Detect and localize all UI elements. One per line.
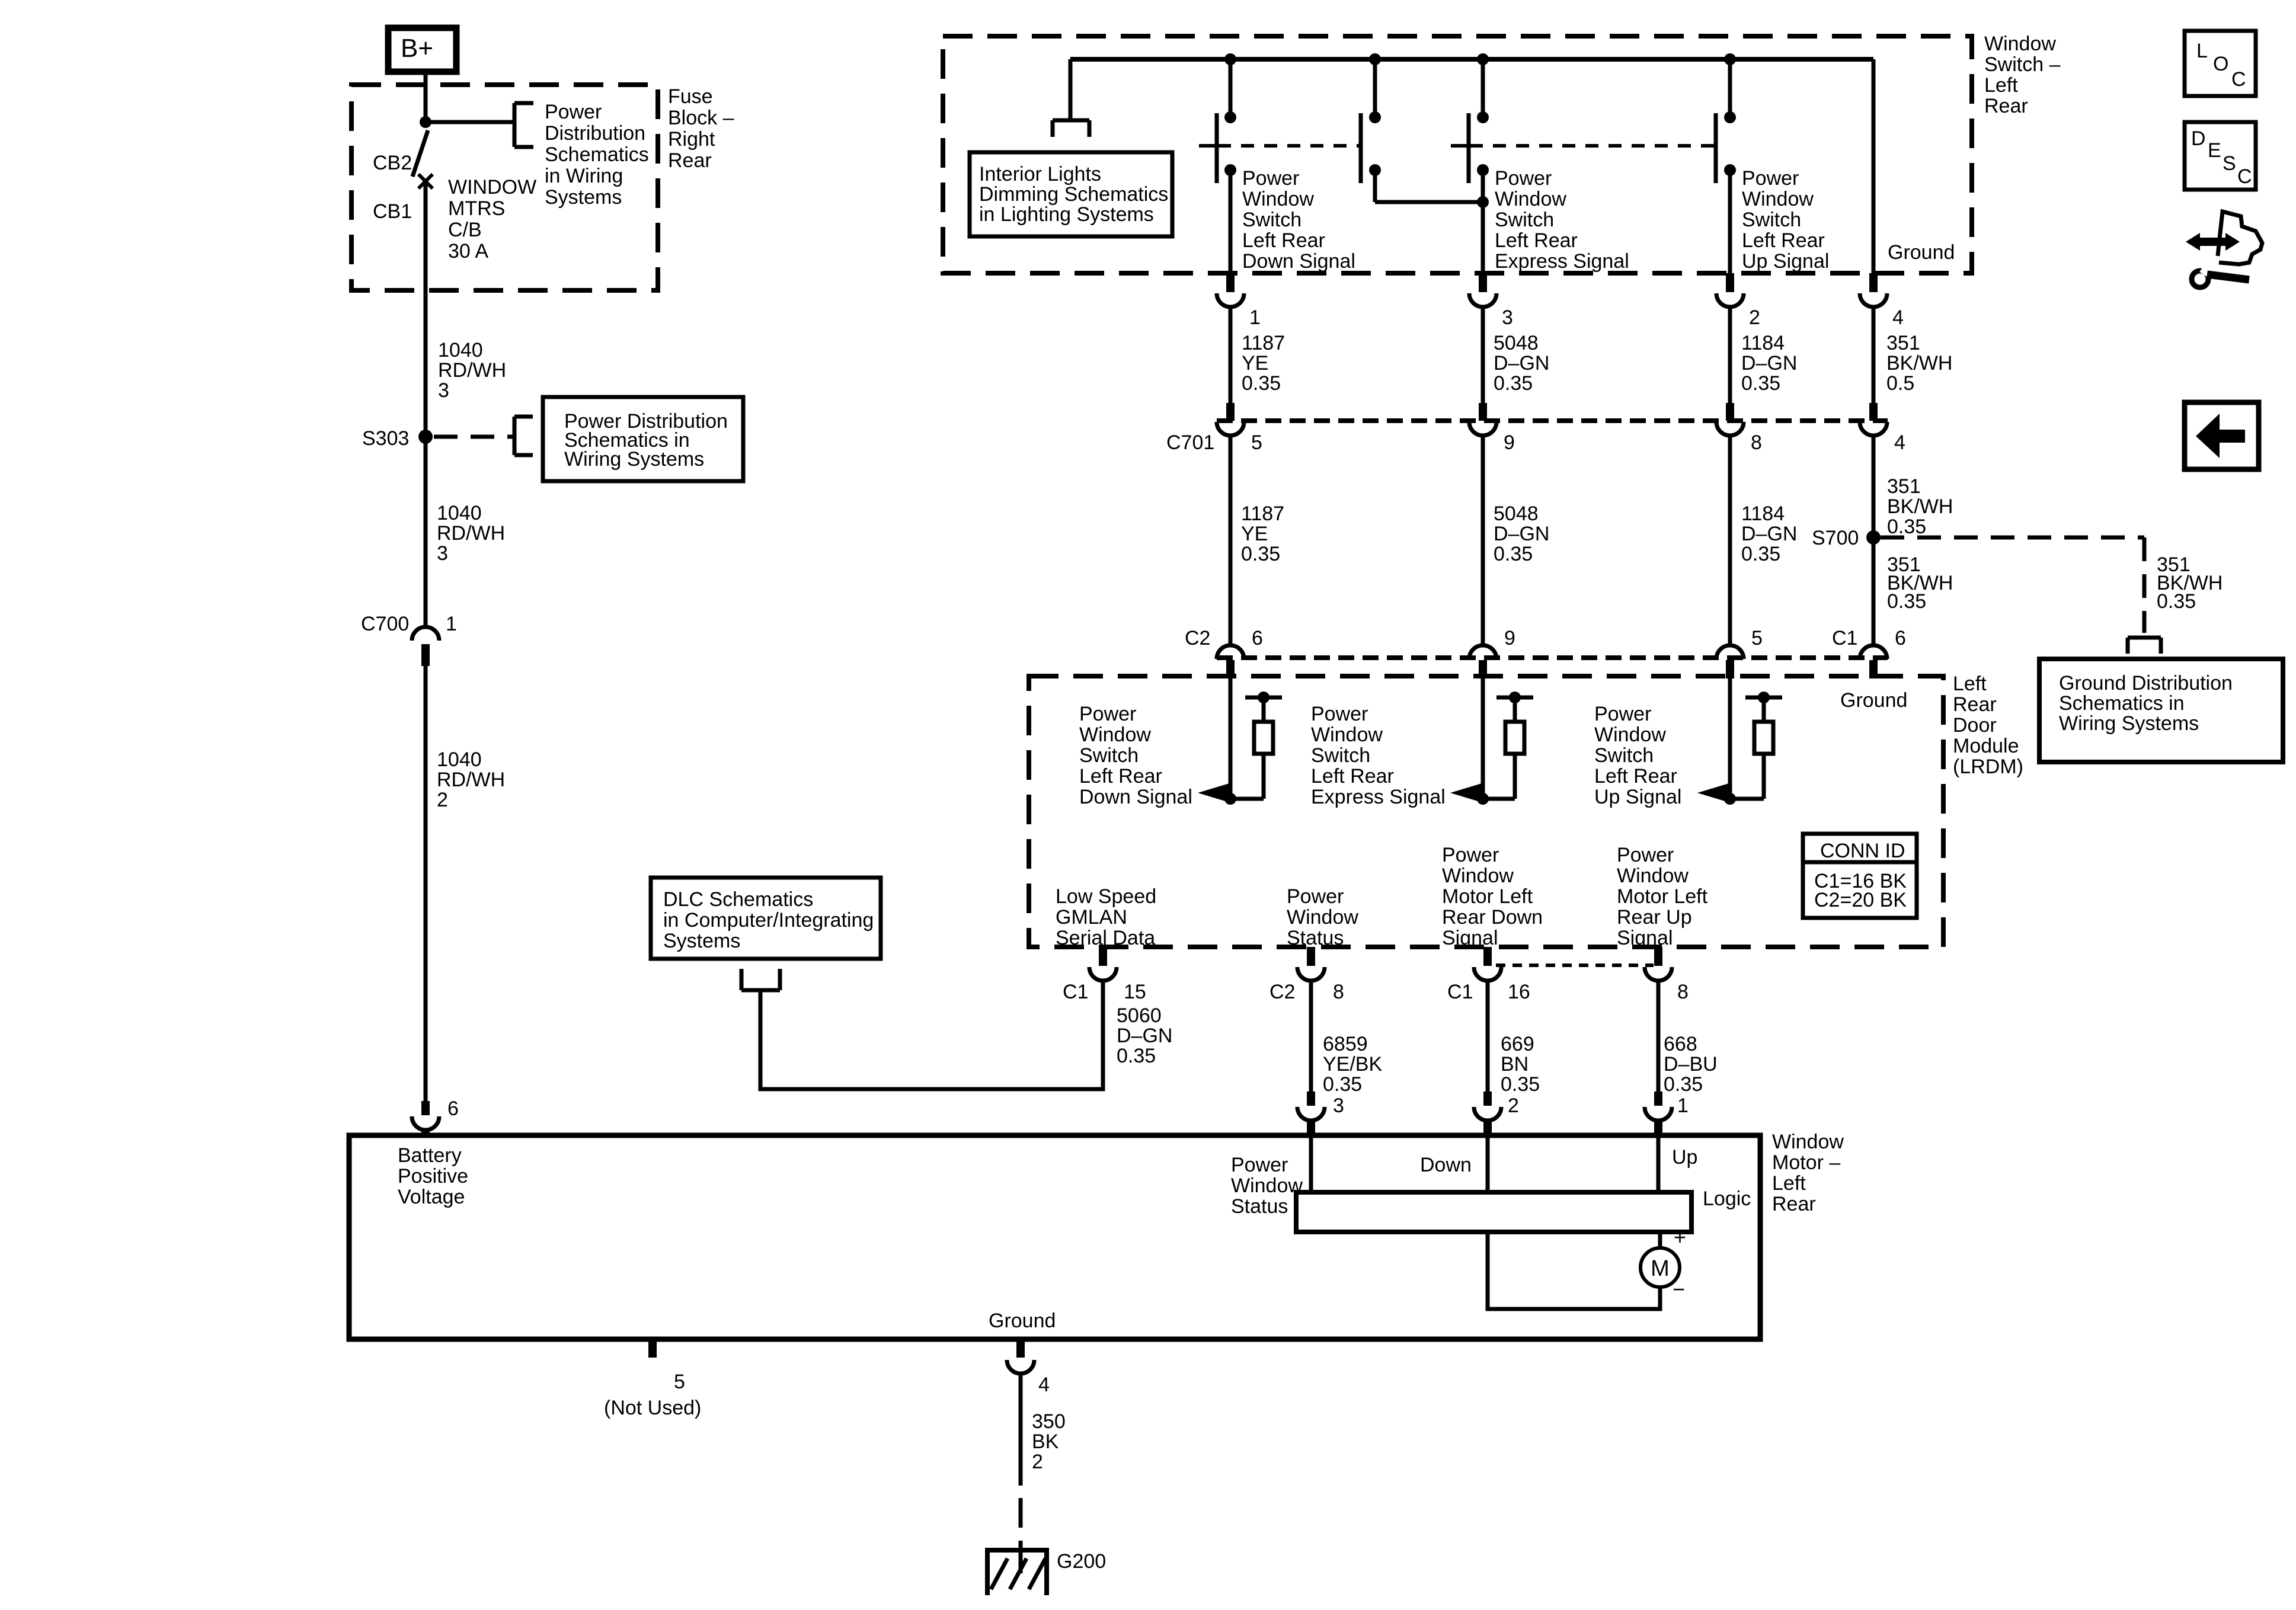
svg-text:(Not Used): (Not Used)	[604, 1397, 701, 1419]
svg-text:Wiring Systems: Wiring Systems	[564, 448, 704, 470]
logic bar	[1296, 1192, 1691, 1232]
svg-text:Window: Window	[1742, 188, 1814, 210]
wire mid contact jog	[1375, 170, 1483, 202]
label C1 16	[1447, 981, 1530, 1003]
svg-text:L: L	[2196, 40, 2208, 62]
wire label 1187 YE 0.35 lower	[1241, 502, 1284, 565]
wire to C2 row	[1728, 436, 1732, 645]
wire label 6859 YE/BK 0.35	[1323, 1033, 1382, 1096]
window switch left rear dashed box	[943, 36, 1972, 273]
wire to C701	[1229, 307, 1233, 404]
label C701	[1166, 431, 1214, 454]
svg-text:3: 3	[437, 542, 448, 565]
svg-text:2: 2	[1508, 1094, 1519, 1117]
svg-text:Power: Power	[545, 101, 602, 123]
svg-text:Power: Power	[1079, 703, 1136, 725]
wire down signal to box edge	[1229, 170, 1233, 273]
circuit breaker CB1/CB2 blade	[412, 130, 433, 188]
connector pin 1 window switch	[1217, 273, 1261, 329]
svg-text:WINDOW: WINDOW	[448, 176, 536, 199]
svg-text:Window: Window	[1242, 188, 1314, 210]
connector pin 3 window switch	[1469, 273, 1513, 329]
svg-text:Switch –: Switch –	[1984, 53, 2061, 76]
svg-text:Power: Power	[1311, 703, 1368, 725]
wire down into logic	[1486, 1135, 1490, 1192]
connector pin window motor top	[1645, 1092, 1672, 1136]
svg-text:S700: S700	[1812, 527, 1859, 549]
wire label 351 BK/WH 0.35 branch	[2157, 553, 2223, 613]
label Window Switch - Left Rear	[1984, 33, 2061, 117]
wire pin 4 to G200	[1019, 1374, 1023, 1573]
svg-text:RD/WH: RD/WH	[437, 769, 505, 791]
svg-text:6859: 6859	[1323, 1033, 1368, 1055]
label Low Speed GMLAN Serial Data	[1056, 885, 1156, 949]
svg-text:0.35: 0.35	[1241, 543, 1280, 565]
svg-text:D–GN: D–GN	[1494, 352, 1549, 375]
svg-text:Window: Window	[1617, 865, 1689, 887]
wire to C701	[1728, 307, 1732, 404]
connector pin LRDM bottom	[1645, 947, 1672, 981]
label pin 3	[1333, 1094, 1344, 1117]
svg-text:0.35: 0.35	[1494, 543, 1533, 565]
wire S303 to C700	[424, 437, 428, 626]
label Power Window Status motor	[1231, 1154, 1303, 1218]
svg-text:Systems: Systems	[663, 930, 740, 952]
svg-text:BK/WH: BK/WH	[1887, 495, 1953, 518]
half connector ground distribution	[2128, 638, 2161, 654]
label Fuse Block - Right Rear	[668, 85, 734, 172]
svg-text:Rear: Rear	[1772, 1193, 1816, 1215]
wire label 1184 D-GN 0.35 upper	[1741, 332, 1797, 395]
svg-text:669: 669	[1501, 1033, 1534, 1055]
svg-text:Logic: Logic	[1703, 1188, 1751, 1210]
svg-text:in Lighting Systems: in Lighting Systems	[979, 203, 1154, 226]
label WINDOW MTRS C/B 30 A	[448, 176, 536, 263]
svg-text:Up: Up	[1672, 1146, 1697, 1169]
svg-text:C/B: C/B	[448, 219, 482, 241]
wire B+ to circuit breaker	[424, 72, 428, 123]
wire label 1187 YE 0.35 upper	[1242, 332, 1285, 395]
svg-text:Left Rear: Left Rear	[1495, 229, 1578, 252]
connector C701 pin 9	[1469, 403, 1515, 454]
svg-text:Up Signal: Up Signal	[1594, 786, 1681, 808]
label CB1	[373, 200, 412, 223]
svg-text:C1: C1	[1447, 981, 1473, 1003]
svg-text:Battery: Battery	[398, 1144, 462, 1167]
svg-text:Ground: Ground	[989, 1310, 1056, 1332]
svg-text:1184: 1184	[1741, 332, 1785, 354]
connector C2/C1 row pin 9	[1469, 627, 1515, 678]
svg-text:Left: Left	[1984, 74, 2018, 97]
label Ground motor box	[989, 1310, 1056, 1332]
svg-text:8: 8	[1333, 981, 1344, 1003]
arrow express signal	[1450, 783, 1482, 802]
dashed wire S700 branch	[1881, 537, 2144, 633]
connector pin window motor top	[1474, 1092, 1501, 1136]
svg-text:Rear Down: Rear Down	[1442, 906, 1543, 929]
svg-text:C700: C700	[361, 613, 409, 635]
svg-text:Wiring Systems: Wiring Systems	[2059, 712, 2199, 735]
svg-text:Up Signal: Up Signal	[1742, 250, 1829, 273]
svg-text:Rear: Rear	[1984, 95, 2028, 117]
svg-text:Schematics in: Schematics in	[2059, 692, 2185, 715]
svg-text:CONN ID: CONN ID	[1820, 840, 1905, 862]
wire label 1040 RD/WH 2	[437, 748, 505, 811]
svg-text:C1: C1	[1063, 981, 1088, 1003]
svg-text:Down Signal: Down Signal	[1242, 250, 1355, 273]
svg-text:GMLAN: GMLAN	[1056, 906, 1127, 929]
node junction at CB2 feed	[420, 116, 431, 128]
svg-text:Power: Power	[1742, 167, 1799, 190]
label Ground switch box	[1888, 241, 1955, 264]
label Power Window Motor LR Up Signal	[1617, 844, 1708, 949]
label C2 8	[1269, 981, 1344, 1003]
wire label 351 BK/WH 0.35 below S700	[1887, 553, 1953, 613]
wire GMLAN serial data to DLC	[760, 981, 1103, 1089]
svg-text:0.5: 0.5	[1886, 372, 1914, 395]
svg-text:Power: Power	[1242, 167, 1299, 190]
node up junction	[1724, 793, 1736, 805]
svg-text:Power: Power	[1594, 703, 1651, 725]
half connector to interior lights	[1053, 120, 1089, 137]
svg-text:Express Signal: Express Signal	[1311, 786, 1446, 808]
label power window switch LR down signal	[1242, 167, 1355, 273]
resistor down pull-up	[1230, 692, 1282, 799]
icon diagnostic arrow car wrench	[2186, 212, 2262, 287]
wire label 1040 RD/WH 3 lower	[437, 502, 505, 565]
svg-text:Motor Left: Motor Left	[1617, 885, 1708, 908]
svg-text:5048: 5048	[1494, 502, 1539, 525]
connector C2/C1 row pin 5	[1716, 627, 1763, 678]
connector pin LRDM bottom	[1297, 947, 1325, 981]
svg-text:1187: 1187	[1241, 502, 1284, 525]
svg-text:Ground: Ground	[1888, 241, 1955, 264]
svg-text:G200: G200	[1057, 1550, 1106, 1573]
connector C2/C1 row pin 6	[1217, 627, 1263, 678]
label Down	[1420, 1154, 1472, 1176]
svg-text:1040: 1040	[437, 502, 482, 524]
svg-text:668: 668	[1664, 1033, 1697, 1055]
svg-text:2: 2	[1749, 306, 1760, 329]
svg-text:8: 8	[1677, 981, 1689, 1003]
label CB2	[373, 152, 412, 174]
svg-text:CB2: CB2	[373, 152, 412, 174]
svg-text:YE: YE	[1241, 523, 1268, 545]
wire junction to refer bracket	[426, 120, 513, 124]
svg-text:Ground: Ground	[1840, 689, 1907, 712]
wire motor plus	[1658, 1232, 1662, 1249]
node bus dot mid pole	[1369, 53, 1381, 65]
svg-text:Door: Door	[1953, 714, 1997, 737]
switch blade bar mid	[1359, 113, 1363, 183]
label Power Window Motor LR Down Signal	[1442, 844, 1543, 949]
connector C701 pin 4	[1860, 403, 1905, 454]
svg-text:Express Signal: Express Signal	[1495, 250, 1629, 273]
label power window switch LR up signal	[1742, 167, 1829, 273]
svg-text:Window: Window	[1594, 724, 1666, 746]
svg-text:(LRDM): (LRDM)	[1953, 756, 2023, 778]
inline connector C700 pin 1	[361, 613, 457, 666]
wire to C701	[1481, 307, 1485, 404]
label power window switch LR express signal	[1495, 167, 1629, 273]
label power window switch LR express signal LRDM	[1311, 703, 1446, 808]
svg-text:Power: Power	[1495, 167, 1552, 190]
label Logic	[1703, 1188, 1751, 1210]
wire label 351 BK/WH 0.5	[1886, 332, 1952, 395]
switch linkage express-up	[1451, 144, 1715, 148]
svg-text:0.35: 0.35	[1741, 372, 1780, 395]
svg-text:Rear: Rear	[1953, 693, 1997, 716]
wire up into logic	[1657, 1135, 1661, 1192]
svg-text:S303: S303	[362, 427, 409, 450]
left rear door module dashed box	[1029, 676, 1943, 947]
svg-text:BN: BN	[1501, 1053, 1528, 1076]
wire label 5060 D-GN 0.35	[1117, 1004, 1172, 1067]
svg-text:Serial Data: Serial Data	[1056, 927, 1155, 949]
label Window Motor - Left Rear	[1772, 1131, 1844, 1215]
icon back arrow box	[2185, 402, 2259, 469]
box Power Distribution Schematics in Wiring Systems	[543, 397, 743, 481]
svg-text:+: +	[1674, 1225, 1686, 1249]
svg-text:Motor Left: Motor Left	[1442, 885, 1533, 908]
svg-text:0.35: 0.35	[2157, 590, 2196, 613]
svg-text:in Computer/Integrating: in Computer/Integrating	[663, 909, 874, 932]
svg-text:O: O	[2213, 53, 2228, 75]
label minus	[1673, 1277, 1685, 1301]
wire express signal to box edge	[1481, 170, 1485, 273]
svg-text:Window: Window	[1079, 724, 1151, 746]
svg-text:0.35: 0.35	[1501, 1073, 1540, 1096]
svg-text:C701: C701	[1166, 431, 1214, 454]
svg-text:0.35: 0.35	[1887, 516, 1926, 538]
arrow up signal	[1697, 783, 1729, 802]
node bus dot up pole	[1724, 53, 1736, 65]
svg-text:Left Rear: Left Rear	[1742, 229, 1825, 252]
svg-text:D–GN: D–GN	[1741, 352, 1797, 375]
svg-text:Dimming Schematics: Dimming Schematics	[979, 183, 1168, 206]
svg-text:4: 4	[1892, 306, 1904, 329]
wire motor loop	[1488, 1232, 1660, 1309]
wire interior lights drop	[1069, 59, 1073, 120]
label plus	[1674, 1225, 1686, 1249]
wire status into logic	[1309, 1135, 1313, 1192]
svg-text:1184: 1184	[1741, 502, 1785, 525]
connector C701 pin 8	[1716, 403, 1762, 454]
wire to C2 row	[1229, 436, 1233, 645]
node express jog junction	[1477, 196, 1489, 208]
svg-text:Power: Power	[1231, 1154, 1288, 1176]
svg-text:5: 5	[1251, 431, 1262, 454]
svg-text:RD/WH: RD/WH	[437, 522, 505, 545]
svg-text:D–GN: D–GN	[1741, 523, 1797, 545]
svg-text:351: 351	[1886, 332, 1920, 354]
connector row C701 dashed line	[1217, 418, 1888, 423]
svg-text:Window: Window	[1311, 724, 1383, 746]
svg-text:MTRS: MTRS	[448, 197, 505, 220]
svg-text:BK: BK	[1032, 1430, 1059, 1453]
svg-text:Window: Window	[1984, 33, 2056, 55]
svg-text:Switch: Switch	[1495, 209, 1554, 231]
svg-text:Rear Up: Rear Up	[1617, 906, 1692, 929]
switch linkage down-mid	[1199, 144, 1360, 148]
svg-text:D: D	[2191, 127, 2206, 150]
window motor left rear box	[349, 1135, 1760, 1339]
svg-text:Block –: Block –	[668, 107, 734, 129]
svg-text:16: 16	[1508, 981, 1530, 1003]
node lower contact up	[1724, 164, 1736, 176]
refer bracket DLC	[741, 969, 780, 990]
switch blade bar up	[1714, 113, 1718, 183]
node lower contact mid	[1369, 164, 1381, 176]
svg-text:Switch: Switch	[1594, 744, 1654, 767]
svg-text:351: 351	[1887, 475, 1921, 498]
label Up	[1672, 1146, 1697, 1169]
svg-text:Status: Status	[1231, 1195, 1288, 1218]
svg-text:5: 5	[1751, 627, 1763, 649]
pin 5 stub not used	[604, 1339, 701, 1419]
label Power Window Status LRDM	[1287, 885, 1358, 949]
svg-text:9: 9	[1504, 627, 1515, 649]
svg-text:−: −	[1673, 1277, 1685, 1301]
label power window switch LR down signal LRDM	[1079, 703, 1192, 808]
svg-text:Positive: Positive	[398, 1165, 468, 1188]
node bus dot down pole	[1224, 53, 1236, 65]
splice S303	[362, 427, 433, 450]
svg-text:Switch: Switch	[1242, 209, 1302, 231]
svg-text:3: 3	[1333, 1094, 1344, 1117]
svg-text:Fuse: Fuse	[668, 85, 713, 108]
connector row C2/C1 dashed line	[1217, 655, 1888, 660]
svg-text:in Wiring: in Wiring	[545, 165, 623, 187]
svg-text:8: 8	[1751, 431, 1762, 454]
tie dashed between C1-16 and 8	[1496, 964, 1654, 967]
connector pin 4 window switch	[1860, 273, 1904, 329]
svg-text:9: 9	[1504, 431, 1515, 454]
svg-text:Switch: Switch	[1742, 209, 1801, 231]
svg-text:15: 15	[1124, 981, 1146, 1003]
svg-text:YE: YE	[1242, 352, 1268, 375]
svg-text:YE/BK: YE/BK	[1323, 1053, 1382, 1076]
node express junction	[1477, 793, 1489, 805]
switch blade bar express	[1467, 113, 1471, 183]
wire pole drop down	[1224, 59, 1236, 123]
svg-text:S: S	[2223, 152, 2236, 175]
fuse block dashed box	[351, 85, 658, 290]
wire label 351 BK/WH 0.35 above S700	[1887, 475, 1953, 538]
svg-text:Status: Status	[1287, 927, 1344, 949]
svg-text:Voltage: Voltage	[398, 1186, 465, 1208]
svg-text:0.35: 0.35	[1117, 1045, 1156, 1067]
resistor up pull-up	[1730, 692, 1782, 799]
svg-text:Switch: Switch	[1079, 744, 1139, 767]
splice S700	[1812, 527, 1881, 549]
ground G200 symbol	[985, 1550, 1106, 1595]
svg-text:RD/WH: RD/WH	[438, 359, 506, 382]
svg-text:0.35: 0.35	[1242, 372, 1281, 395]
label pin 2	[1508, 1094, 1519, 1117]
svg-text:C: C	[2231, 68, 2246, 91]
wire label 350 BK 2	[1032, 1410, 1066, 1473]
wire label 5048 D-GN 0.35 upper	[1494, 332, 1549, 395]
node lower contact down	[1224, 164, 1236, 176]
svg-text:BK/WH: BK/WH	[1886, 352, 1952, 375]
svg-text:0.35: 0.35	[1664, 1073, 1703, 1096]
svg-text:Window: Window	[1287, 906, 1358, 929]
wire label 1040 RD/WH 3 upper	[438, 339, 506, 402]
svg-text:D–GN: D–GN	[1494, 523, 1549, 545]
svg-text:1187: 1187	[1242, 332, 1285, 354]
svg-text:Distribution: Distribution	[545, 122, 645, 145]
wire LRDM to window motor	[1486, 981, 1490, 1092]
CONN ID table	[1803, 834, 1917, 918]
connector pin 2 window switch	[1716, 273, 1760, 329]
label pin 8	[1677, 981, 1689, 1003]
node bus dot express pole	[1477, 53, 1489, 65]
refer bracket fuse block	[514, 103, 533, 147]
wire label 5048 D-GN 0.35 lower	[1494, 502, 1549, 565]
svg-text:C2: C2	[1185, 627, 1210, 649]
svg-text:6: 6	[447, 1097, 459, 1120]
connector pin LRDM bottom	[1089, 947, 1117, 981]
connector pin 6 battery	[412, 1097, 459, 1136]
svg-text:CB1: CB1	[373, 200, 412, 223]
svg-text:Ground Distribution: Ground Distribution	[2059, 672, 2233, 694]
motor M circle	[1641, 1248, 1680, 1287]
svg-text:C1: C1	[1832, 627, 1857, 649]
svg-text:Power: Power	[1617, 844, 1674, 866]
label C1 row	[1832, 627, 1857, 649]
bus wire B+ inside switch	[1070, 57, 1873, 62]
box Ground Distribution Schematics	[2039, 659, 2283, 762]
svg-text:Left Rear: Left Rear	[1242, 229, 1325, 252]
resistor express pull-up	[1483, 692, 1533, 799]
svg-text:1040: 1040	[437, 748, 482, 771]
svg-text:3: 3	[438, 379, 449, 402]
svg-text:1: 1	[1677, 1094, 1689, 1117]
svg-text:Signal: Signal	[1442, 927, 1498, 949]
svg-text:4: 4	[1894, 431, 1905, 454]
label power window switch LR up signal LRDM	[1594, 703, 1681, 808]
refer bracket S303	[514, 417, 533, 455]
svg-text:Left Rear: Left Rear	[1079, 765, 1162, 788]
svg-text:1: 1	[1249, 306, 1261, 329]
wire ground drop right corner	[1872, 59, 1876, 273]
svg-text:0.35: 0.35	[1494, 372, 1533, 395]
node down junction	[1224, 793, 1236, 805]
svg-text:2: 2	[437, 789, 448, 811]
label pin 1	[1677, 1094, 1689, 1117]
svg-text:Window: Window	[1442, 865, 1514, 887]
label Ground LRDM	[1840, 689, 1907, 712]
wire pole drop mid	[1369, 59, 1381, 123]
label Battery Positive Voltage	[398, 1144, 468, 1208]
svg-text:Interior Lights: Interior Lights	[979, 163, 1101, 185]
connector pin LRDM bottom	[1474, 947, 1501, 981]
switch blade bar down	[1215, 113, 1219, 183]
svg-text:C2: C2	[1269, 981, 1295, 1003]
svg-text:1: 1	[446, 613, 457, 635]
svg-text:0.35: 0.35	[1741, 543, 1780, 565]
svg-text:4: 4	[1038, 1374, 1050, 1396]
svg-text:B+: B+	[401, 34, 433, 63]
label Left Rear Door Module LRDM	[1953, 673, 2023, 778]
svg-text:E: E	[2208, 139, 2221, 162]
svg-text:Window: Window	[1231, 1174, 1303, 1197]
wire C700 to window motor	[424, 666, 428, 1101]
connector pin 4 ground	[1007, 1339, 1050, 1396]
svg-text:350: 350	[1032, 1410, 1066, 1433]
box DLC Schematics	[651, 878, 881, 959]
